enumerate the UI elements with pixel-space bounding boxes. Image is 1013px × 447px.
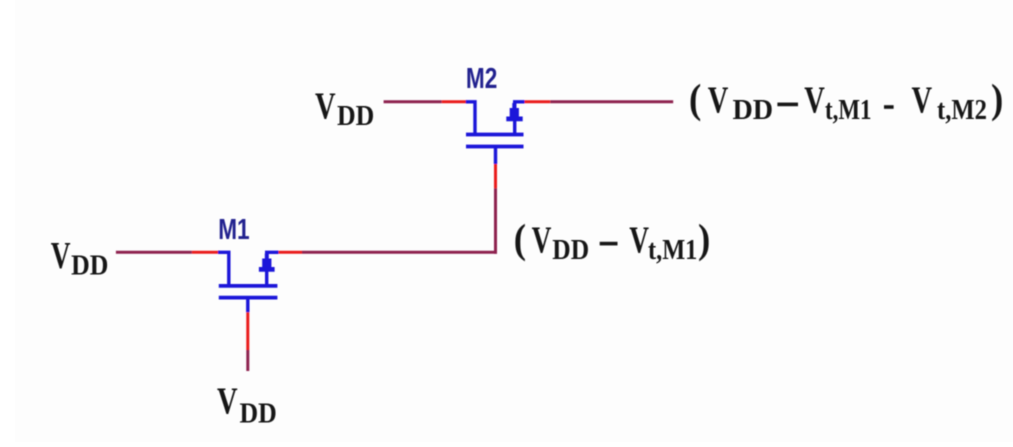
wire: M2 source to output node <box>525 100 674 103</box>
node label (VDD - Vt,M1 - Vt,M2) <box>689 77 1003 126</box>
svg-text:(: ( <box>514 217 526 262</box>
wire: M1 source to M2 gate (node A) <box>279 251 498 254</box>
svg-text:M2: M2 <box>466 61 497 94</box>
svg-text:): ) <box>698 217 710 262</box>
svg-text:(: ( <box>689 77 701 122</box>
svg-text:DD: DD <box>71 249 108 281</box>
wire: VDD to M1 drain <box>116 251 220 254</box>
node label (VDD - Vt,M1) <box>514 217 710 266</box>
svg-text:V: V <box>629 219 649 261</box>
wire: VDD to M2 drain <box>384 100 467 103</box>
svg-text:V: V <box>912 80 933 122</box>
wire: M1 gate down to VDD <box>246 312 249 371</box>
svg-text:V: V <box>708 80 729 122</box>
svg-text:V: V <box>315 86 336 128</box>
transistor M2 <box>466 102 525 164</box>
power label VDD top-left <box>315 86 374 132</box>
svg-text:DD: DD <box>240 397 277 429</box>
transistor label M2 <box>466 61 497 94</box>
svg-text:V: V <box>804 80 825 122</box>
svg-text:DD: DD <box>552 234 589 266</box>
svg-text:t,M2: t,M2 <box>937 95 987 126</box>
wire: M2 gate down to node A <box>494 164 497 254</box>
transistor label M1 <box>218 212 249 245</box>
svg-text:V: V <box>51 235 71 277</box>
svg-text:M1: M1 <box>218 212 249 245</box>
svg-text:t,M1: t,M1 <box>825 94 872 126</box>
transistor M1 <box>218 252 279 312</box>
power label VDD bottom <box>217 381 277 429</box>
svg-text:V: V <box>532 219 552 261</box>
svg-text:t,M1: t,M1 <box>648 234 697 265</box>
svg-text:): ) <box>991 77 1003 122</box>
power label VDD middle-left <box>51 235 109 281</box>
svg-text:DD: DD <box>337 100 374 132</box>
svg-text:DD: DD <box>733 95 774 126</box>
svg-text:V: V <box>217 381 238 423</box>
